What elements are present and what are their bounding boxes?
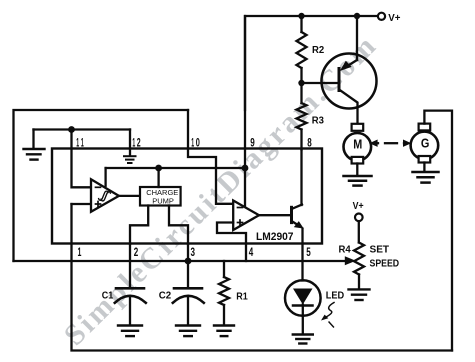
ground under C2	[176, 326, 200, 337]
label V+ mid	[353, 201, 364, 212]
junction dot R2/R3 base node	[298, 80, 304, 86]
LED light arrow	[321, 303, 334, 328]
svg-text:4: 4	[249, 245, 254, 259]
wire pin 8 inside IC to Q2 collector	[300, 150, 302, 206]
wire op-amp1 output to charge pump	[119, 195, 140, 197]
label R3	[312, 115, 325, 126]
label M	[353, 137, 362, 152]
wire op-amp2 plus input to pin 4	[217, 223, 246, 262]
pin label 5	[306, 245, 311, 259]
label LED	[326, 290, 344, 301]
pin label 3	[191, 245, 196, 259]
svg-text:G: G	[421, 136, 430, 151]
svg-text:1: 1	[132, 135, 135, 149]
capacitor C2	[173, 288, 204, 325]
svg-text:C2: C2	[159, 291, 172, 302]
svg-text:2: 2	[134, 245, 139, 259]
label SET	[370, 245, 390, 256]
wire ground feed at top left	[34, 130, 131, 149]
wiper arrow R4	[345, 256, 356, 265]
node V+ terminal mid right	[355, 214, 363, 222]
svg-text:SET: SET	[370, 245, 390, 256]
transistor Q2 internal	[292, 205, 304, 229]
pin label 10	[191, 135, 200, 149]
svg-text:LED: LED	[326, 290, 344, 301]
ground under C1	[118, 326, 142, 337]
wire top left from frame to pin 10	[14, 110, 189, 261]
svg-text:R2: R2	[312, 45, 325, 56]
label V+ top	[388, 13, 400, 24]
resistor R2	[297, 16, 307, 83]
svg-text:LM2907: LM2907	[256, 231, 294, 243]
capacitor C1	[115, 288, 146, 325]
label G	[421, 136, 430, 151]
svg-text:1: 1	[81, 135, 84, 149]
pin label 4	[249, 245, 254, 259]
wire Q1 base from R2/R3 node	[302, 82, 338, 84]
label SPEED	[370, 258, 400, 269]
motor M	[344, 124, 372, 176]
pin label 2	[134, 245, 139, 259]
shaft dashed coupling with arrows	[369, 140, 411, 147]
svg-text:9: 9	[250, 135, 255, 149]
label R4	[339, 245, 352, 256]
label C1	[102, 291, 114, 302]
op-amp U1A with hysteresis	[91, 179, 119, 212]
watermark SimpleCircuitDiagram.Com	[58, 28, 384, 352]
svg-text:R4: R4	[339, 245, 352, 256]
svg-text:C1: C1	[102, 291, 114, 302]
ground under R1	[214, 326, 234, 337]
svg-text:0: 0	[196, 135, 200, 149]
op-amp U1B	[233, 201, 259, 231]
resistor R3	[297, 83, 307, 150]
wire pin 10 path into IC to op-amp2 minus input	[188, 110, 232, 204]
svg-text:3: 3	[191, 245, 196, 259]
svg-text:2: 2	[137, 135, 141, 149]
label CHARGE PUMP	[146, 188, 178, 205]
wire top V+ rail	[245, 16, 377, 110]
LED D1	[285, 280, 321, 334]
junction dot charge pump top	[155, 165, 162, 172]
IC box LM2907	[52, 149, 322, 244]
wire feedback op-amp1 top	[106, 168, 245, 186]
svg-text:R3: R3	[312, 115, 325, 126]
wire pin 1 to op-amp1 plus input	[72, 203, 91, 205]
label LM2907	[256, 231, 294, 243]
pin label 1	[78, 245, 82, 259]
ground under M	[344, 176, 372, 186]
ground under R4	[349, 289, 370, 300]
junction dot pin 3 bus	[185, 258, 192, 265]
wire pin 3 to C2	[187, 244, 189, 288]
wire G top to right side down to bottom rail	[424, 111, 452, 351]
svg-text:PUMP: PUMP	[152, 196, 174, 205]
junction dot pin 9 feedback	[242, 165, 249, 172]
wire pin 2 to C1	[129, 244, 131, 288]
junction dot R2 top	[298, 13, 304, 19]
pin label 9	[250, 135, 255, 149]
label R2	[312, 45, 325, 56]
junction dot Q1 emitter / V+	[354, 13, 360, 19]
transistor Q1	[322, 16, 377, 125]
label R1	[236, 291, 248, 302]
ground top left	[24, 149, 45, 160]
svg-text:1: 1	[78, 245, 82, 259]
wire pin 9 drop from top rail into IC	[244, 16, 246, 207]
wire pin 5 emitter to LED	[301, 229, 303, 281]
pin label 12	[132, 135, 141, 149]
svg-text:8: 8	[307, 135, 312, 149]
wire pin 12 to internal ground	[129, 130, 131, 156]
wire speed-set bus y=261	[14, 260, 349, 262]
charge pump block	[130, 168, 188, 244]
ground under LED	[293, 335, 313, 344]
svg-text:R1: R1	[236, 291, 248, 302]
svg-text:M: M	[353, 137, 362, 152]
wire op-amp2 output to Q2 base	[259, 214, 291, 216]
generator G	[411, 124, 439, 172]
svg-text:V+: V+	[388, 13, 400, 24]
ground pin 12 internal	[124, 156, 136, 163]
potentiometer R4	[354, 221, 364, 289]
svg-text:1: 1	[76, 135, 79, 149]
node V+ terminal top right	[378, 13, 385, 20]
svg-text:1: 1	[191, 135, 194, 149]
ground under G	[413, 172, 439, 183]
pin label 8	[307, 135, 312, 149]
label C2	[159, 291, 172, 302]
resistor R1	[219, 261, 229, 325]
svg-text:SPEED: SPEED	[370, 258, 400, 269]
svg-text:V+: V+	[353, 201, 364, 212]
svg-text:5: 5	[306, 245, 311, 259]
wire bottom rail to pin 1	[72, 204, 453, 351]
wire pin 11 to op-amp1 minus input	[72, 130, 91, 188]
junction dot pin 11	[68, 126, 75, 133]
pin label 11	[76, 135, 84, 149]
